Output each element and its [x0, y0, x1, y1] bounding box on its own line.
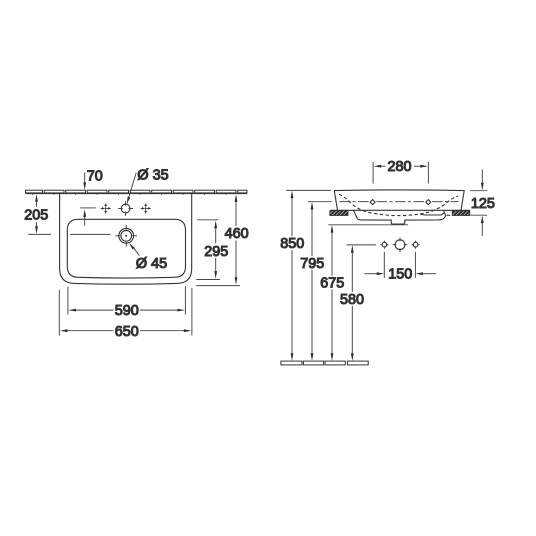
leader O45: [133, 247, 140, 256]
floor tiles: [281, 361, 368, 365]
svg-text:580: 580: [340, 292, 364, 308]
basin lower body: [354, 210, 446, 224]
dimension 150 extension lines: [384, 252, 415, 278]
dimension 580 extension line: [347, 244, 376, 246]
dimension 125 stubs: [470, 170, 487, 237]
position cross right: [141, 203, 151, 213]
svg-text:280: 280: [387, 159, 411, 175]
dimension 70: lower arrow: [84, 215, 86, 226]
svg-text:650: 650: [115, 324, 139, 340]
tap hole diamond right: [426, 200, 431, 205]
svg-text:205: 205: [24, 208, 48, 224]
inner bowl outline: [67, 219, 185, 278]
dimension 150 outside arrows: [365, 273, 378, 275]
washbasin outer rim outline (top view): [60, 194, 192, 284]
dimension 580 line: [351, 250, 353, 357]
dimension 850 extension line: [286, 189, 331, 191]
svg-text:850: 850: [280, 236, 304, 252]
dimension 460 line: [235, 199, 237, 281]
dimension 650 line: [65, 330, 186, 332]
fixing hole left: [382, 242, 387, 247]
drain tick marks + centre dot: [115, 225, 137, 247]
svg-text:70: 70: [87, 168, 103, 184]
dimension 280 line: [380, 165, 423, 167]
wall tile course 1 (top row of bricks): [26, 190, 248, 193]
wall anchor hatch right: [452, 211, 470, 216]
dimension 795 line: [311, 206, 313, 356]
overflow channel line: [420, 212, 444, 215]
svg-text:460: 460: [225, 226, 249, 242]
dimension 590 line: [74, 309, 180, 311]
tap hole circle (O35): [121, 204, 130, 213]
basin profile outline: [334, 190, 464, 210]
dimension 70: upper arrow to wall: [84, 173, 86, 185]
svg-text:295: 295: [204, 244, 228, 260]
svg-text:125: 125: [471, 196, 495, 212]
dimension 460 bottom extension line: [196, 285, 240, 287]
svg-text:Ø 35: Ø 35: [137, 168, 168, 184]
dimension 280 extension lines: [373, 162, 428, 184]
tap hole centreline (dashed): [340, 201, 459, 203]
wall mounting line: [331, 209, 470, 211]
leader O35: [129, 173, 136, 197]
dimension 205 extension line (drain centreline): [28, 233, 110, 235]
svg-text:150: 150: [388, 267, 412, 283]
dimension 295 extension lines: [196, 220, 220, 280]
svg-text:Ø 45: Ø 45: [136, 256, 167, 272]
small dash right of body: [447, 214, 451, 216]
drain outlet circle: [395, 240, 405, 250]
wall course 2 joint ticks: [33, 194, 227, 195]
svg-text:675: 675: [320, 276, 344, 292]
wall bottom line (tile course 2): [26, 193, 248, 195]
hidden bowl contour (dashed): [339, 194, 458, 215]
dimension 590 extension lines: [68, 287, 185, 315]
position cross left: [101, 203, 111, 213]
svg-text:590: 590: [115, 303, 139, 319]
dimension 675 extension line: [328, 224, 408, 226]
tap hole diamond left: [370, 200, 375, 205]
wall anchor hatch left: [330, 211, 348, 216]
dimension 675 line: [331, 230, 333, 357]
svg-text:795: 795: [300, 256, 324, 272]
fixing hole right: [413, 242, 418, 247]
dimension 795 extension line: [308, 201, 332, 203]
drain hole (O45) outer circle: [119, 228, 134, 243]
dimension 650 extension lines: [59, 288, 192, 336]
dimension 70: tap centreline stub: [80, 207, 95, 209]
tap hole tick marks: [118, 201, 133, 216]
dimension 850 line: [291, 195, 293, 356]
drain hole inner circle: [121, 230, 132, 241]
dimension 205 line: [36, 199, 38, 230]
dimension 295 line: [215, 225, 217, 274]
